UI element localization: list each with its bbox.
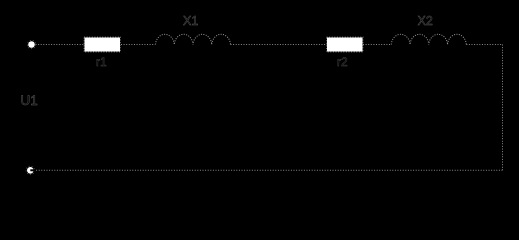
wire: bottom return [34,169,503,171]
wire: r2 to X2 [363,44,391,46]
resistor r2 [327,37,364,52]
node terminal bottom-left [26,166,35,174]
svg-text:X1: X1 [183,14,198,28]
svg-text:X2: X2 [418,14,433,28]
wire: X1 to r2 [231,44,328,46]
wire top: terminal to r1 [36,44,85,46]
svg-text:r2: r2 [337,55,348,69]
inductor X2 [391,34,466,44]
svg-text:U1: U1 [21,93,38,108]
inductor X1 [156,34,231,44]
wire: X2 to right corner [466,44,502,46]
resistor r1 [84,37,121,52]
wire: r1 to X1 [121,44,155,46]
node terminal top-left [27,40,35,48]
svg-text:r1: r1 [96,55,107,69]
wire: right vertical [502,45,504,171]
